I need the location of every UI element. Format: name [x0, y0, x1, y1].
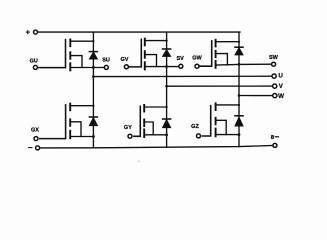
- wire bottom -rail: [40, 146, 274, 148]
- svg-text:GU: GU: [30, 59, 38, 65]
- svg-text:GY: GY: [124, 125, 132, 131]
- transistor Q4 bottom X: [40, 104, 94, 139]
- node W drain tee: [238, 41, 240, 43]
- wire leg W: [238, 32, 240, 147]
- svg-text:GV: GV: [121, 57, 129, 63]
- terminal GV: [124, 65, 128, 69]
- svg-text:SU: SU: [102, 58, 110, 64]
- node V output tap: [165, 85, 168, 88]
- diode D1: [89, 52, 97, 59]
- node Y drain tee: [166, 106, 168, 108]
- terminal SW: [272, 62, 276, 66]
- terminal GU: [33, 65, 37, 69]
- terminal SV: [179, 64, 183, 68]
- terminal P+: [34, 30, 38, 34]
- node Y source junction: [165, 133, 168, 136]
- svg-text:U: U: [278, 73, 283, 80]
- terminal V: [273, 84, 277, 88]
- terminal GZ: [197, 134, 201, 138]
- terminal U: [272, 74, 276, 78]
- transistor Q1 top U: [37, 39, 104, 70]
- terminal GY: [128, 134, 132, 138]
- diode D2: [163, 49, 171, 56]
- svg-text:SV: SV: [177, 56, 185, 62]
- svg-text:GX: GX: [31, 127, 39, 133]
- wire output W: [239, 95, 273, 97]
- terminal W: [273, 94, 277, 98]
- node W output tap: [238, 94, 241, 97]
- wire leg U: [92, 32, 94, 148]
- node X drain tee: [92, 105, 94, 107]
- svg-text:SW: SW: [269, 55, 279, 61]
- node U output tap: [92, 75, 95, 78]
- wire top +rail: [37, 31, 240, 33]
- node V source junction: [165, 65, 168, 68]
- terminal GW: [195, 64, 199, 68]
- terminal GX: [34, 137, 38, 141]
- transistor Q2 top V: [128, 39, 179, 70]
- transistor Q3 top W: [199, 40, 272, 68]
- label -: [29, 147, 32, 149]
- node V drain tee: [166, 40, 168, 42]
- transistor Q5 bottom Y: [134, 105, 167, 137]
- terminal N-: [36, 146, 40, 150]
- node Z source junction: [238, 133, 241, 136]
- node Z drain tee: [238, 104, 240, 106]
- diode D4: [89, 117, 97, 126]
- wire leg V: [166, 32, 168, 147]
- diode D6: [235, 116, 243, 126]
- wire output V: [167, 85, 273, 87]
- terminal B- right: [273, 143, 277, 147]
- node X source junction: [92, 135, 95, 138]
- node U drain tee: [92, 40, 94, 42]
- transistor Q6 bottom Z: [202, 103, 239, 136]
- terminal SU: [104, 65, 108, 69]
- svg-text:GZ: GZ: [191, 124, 199, 130]
- wire output U: [93, 75, 272, 77]
- node W source junction: [238, 63, 241, 66]
- svg-text:GW: GW: [192, 56, 202, 62]
- svg-text:+: +: [26, 28, 31, 37]
- node U source junction: [92, 66, 95, 69]
- svg-text:W: W: [278, 93, 284, 100]
- diode D5: [163, 119, 171, 128]
- diode D3: [235, 47, 243, 55]
